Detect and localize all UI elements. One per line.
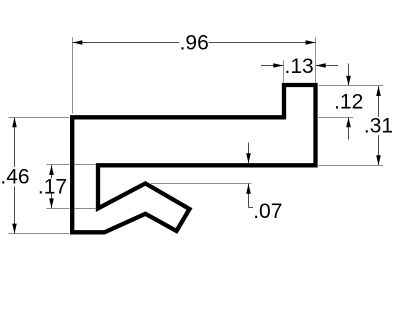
svg-text:.96: .96 — [180, 32, 209, 55]
dimension line .12 top tail — [348, 64, 350, 86]
extension line .46 top — [9, 117, 70, 119]
dimension line .46 upper segment — [14, 118, 16, 168]
arrowhead .12 top (points down) — [346, 76, 351, 86]
extension line .07 peak — [151, 183, 251, 185]
dimension line .07 bottom tail / leader — [248, 184, 250, 208]
extension line .17 top (right of wall) — [75, 164, 96, 166]
dimension line .46 lower segment — [14, 186, 16, 233]
extension line .96 right / .13 right — [315, 37, 317, 82]
dimension line .13 right tail — [316, 65, 338, 67]
extension line .17 bottom (left of wall) — [47, 208, 70, 210]
arrowhead .12 bottom (points up) — [346, 117, 351, 127]
leader foot .07 — [249, 207, 254, 209]
dimension line .07 top tail — [248, 143, 250, 164]
svg-text:.17: .17 — [38, 175, 67, 198]
svg-text:.31: .31 — [364, 114, 393, 137]
arrowhead .13 left (points right) — [273, 63, 283, 68]
arrowhead .07 bottom (points up) — [246, 184, 251, 194]
arrowhead .13 right (points left) — [316, 63, 326, 68]
svg-text:.13: .13 — [284, 55, 313, 78]
arrowhead .96 left — [72, 40, 82, 45]
svg-text:.46: .46 — [0, 165, 29, 188]
extension line .17 bottom (right of wall) — [75, 208, 97, 210]
arrowhead .31 top (points up) — [376, 86, 381, 96]
extension line .12 and .31 top — [319, 85, 384, 87]
arrowhead .46 top (points up) — [12, 117, 17, 127]
dimension line .12 bottom tail — [348, 118, 350, 140]
extension line .17 top (left of wall) — [47, 164, 70, 166]
extension line .12 bottom — [318, 117, 353, 119]
extension line .46 bottom — [9, 233, 70, 235]
arrowhead .31 bottom (points down) — [376, 155, 381, 165]
extension line .96 left — [72, 37, 74, 113]
arrowhead .07 top (points down) — [246, 153, 251, 163]
arrowhead .96 right — [306, 40, 316, 45]
extension line .13 left — [283, 60, 285, 82]
dimension line .96 left segment — [73, 42, 180, 44]
part outline (clip cross-section profile) — [72, 85, 315, 232]
arrowhead .46 bottom (points down) — [12, 224, 17, 234]
extension line .31 bottom — [318, 165, 383, 167]
dimension line .96 right segment — [209, 42, 316, 44]
dimension line .17 lower segment — [51, 194, 53, 209]
arrowhead .17 top (points up) — [49, 165, 54, 175]
svg-text:.12: .12 — [334, 91, 363, 114]
svg-text:.07: .07 — [253, 200, 282, 223]
dimension line .31 lower segment — [378, 135, 380, 165]
dimension line .17 upper segment — [51, 165, 53, 178]
dimension line .13 left tail — [261, 65, 283, 67]
arrowhead .17 bottom (points down) — [49, 198, 54, 208]
dimension line .31 upper segment — [378, 86, 380, 117]
